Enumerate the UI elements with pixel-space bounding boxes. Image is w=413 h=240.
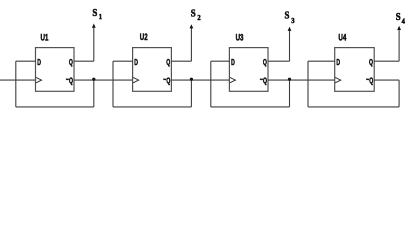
- U1 pin D label: [37, 59, 41, 67]
- U3 pin Q label: [263, 59, 267, 67]
- svg-text:~: ~: [260, 76, 263, 84]
- wire U4 Q horizontal: [374, 60, 399, 62]
- wire U2 loop bottom: [113, 106, 191, 108]
- node S4 label: [396, 11, 401, 23]
- svg-text:Q: Q: [369, 78, 373, 86]
- U4 pin D label: [336, 59, 340, 67]
- node S4 subscript: [402, 17, 406, 25]
- svg-text:S: S: [285, 10, 290, 22]
- wire U4 feedback left vertical: [307, 61, 309, 107]
- U1 label: [41, 32, 49, 43]
- arrowhead S3: [288, 27, 292, 31]
- wire U3 ~Q drop vertical: [289, 80, 291, 107]
- U3 pin ~Q label: tilde part: [260, 76, 263, 84]
- wire U1 ~Q to U2 clock: [74, 79, 133, 81]
- arrowhead S4: [397, 26, 401, 30]
- wire U4 ~Q drop vertical: [398, 80, 400, 107]
- junction dot U2 ~Q node: [190, 78, 193, 81]
- U2 pin Q label: [166, 59, 170, 67]
- svg-text:U4: U4: [338, 32, 346, 43]
- U1 pin Q label: [69, 59, 73, 67]
- U2 label: [140, 32, 148, 43]
- U3 pin D label: [231, 59, 235, 67]
- U4 pin ~Q label: Q part: [369, 78, 373, 86]
- arrowhead S1: [92, 24, 96, 28]
- wire U2 ~Q to U3 clock: [171, 79, 229, 81]
- wire U2 feedback to D: [113, 60, 133, 62]
- node S2 subscript: [197, 14, 201, 22]
- svg-text:Q: Q: [166, 59, 170, 67]
- wire U1 Q horizontal: [74, 60, 94, 62]
- wire U3 feedback left vertical: [210, 61, 212, 107]
- node S3 subscript: [291, 17, 295, 25]
- arrowhead S2: [190, 24, 194, 28]
- svg-text:D: D: [37, 59, 41, 67]
- wire U1 loop bottom: [16, 106, 94, 108]
- U2 pin D label: [134, 59, 138, 67]
- wire U1 ~Q drop vertical: [93, 80, 95, 107]
- wire U4 ~Q horizontal: [374, 79, 399, 81]
- svg-text:~: ~: [163, 76, 166, 84]
- wire U1 feedback left vertical: [15, 61, 17, 107]
- wire U3 Q horizontal: [268, 60, 290, 62]
- wire U4 feedback to D: [308, 60, 335, 62]
- wire U1 feedback to D: [16, 60, 36, 62]
- svg-text:Q: Q: [369, 59, 373, 67]
- svg-text:Q: Q: [69, 59, 73, 67]
- flip-flop U3 box: [229, 48, 268, 92]
- U2 pin ~Q label: tilde part: [163, 76, 166, 84]
- junction dot U1 ~Q node: [92, 78, 95, 81]
- flip-flop U2 box: [133, 48, 172, 92]
- wire U2 Q horizontal: [171, 60, 191, 62]
- svg-text:U2: U2: [140, 32, 148, 43]
- node S2 label: [191, 8, 196, 20]
- svg-text:D: D: [134, 59, 138, 67]
- U4 label: [338, 32, 346, 43]
- U4 clock triangle: [335, 77, 341, 82]
- svg-text:S: S: [191, 8, 196, 20]
- U2 clock triangle: [133, 77, 139, 82]
- U3 clock triangle: [230, 77, 236, 82]
- svg-text:D: D: [336, 59, 340, 67]
- svg-text:S: S: [92, 7, 97, 19]
- node S1 label: [92, 7, 97, 19]
- svg-text:4: 4: [402, 17, 406, 25]
- svg-text:Q: Q: [263, 78, 267, 86]
- U3 pin ~Q label: Q part: [263, 78, 267, 86]
- svg-text:Q: Q: [69, 78, 73, 86]
- wire S4 riser: [398, 29, 400, 61]
- svg-text:1: 1: [99, 13, 103, 21]
- wire U2 feedback left vertical: [112, 61, 114, 107]
- svg-text:U3: U3: [236, 32, 244, 43]
- wire U2 ~Q drop vertical: [190, 80, 192, 107]
- wire S1 riser: [93, 27, 95, 62]
- flip-flop U4 box: [335, 48, 375, 92]
- flip-flop U1 box: [36, 48, 75, 92]
- svg-text:S: S: [396, 11, 401, 23]
- svg-text:D: D: [231, 59, 235, 67]
- U4 pin Q label: [369, 59, 373, 67]
- U1 clock triangle: [36, 77, 42, 82]
- node S1 subscript: [99, 13, 103, 21]
- svg-text:2: 2: [197, 14, 201, 22]
- svg-text:~: ~: [366, 76, 369, 84]
- node S3 label: [285, 10, 290, 22]
- wire S2 riser: [190, 27, 192, 61]
- U1 pin ~Q label: tilde part: [66, 76, 69, 84]
- svg-text:Q: Q: [263, 59, 267, 67]
- svg-text:Q: Q: [166, 78, 170, 86]
- svg-text:~: ~: [66, 76, 69, 84]
- junction dot U3 ~Q node: [288, 78, 291, 81]
- svg-text:U1: U1: [41, 32, 49, 43]
- wire U4 loop bottom: [308, 106, 399, 108]
- U1 pin ~Q label: Q part: [69, 78, 73, 86]
- wire U3 feedback to D: [211, 60, 230, 62]
- wire S3 riser: [289, 30, 291, 61]
- U2 pin ~Q label: Q part: [166, 78, 170, 86]
- wire clock input to U1: [0, 79, 36, 81]
- wire U3 ~Q to U4 clock: [268, 79, 335, 81]
- U3 label: [236, 32, 244, 43]
- svg-text:3: 3: [291, 17, 295, 25]
- U4 pin ~Q label: tilde part: [366, 76, 369, 84]
- wire U3 loop bottom: [211, 106, 290, 108]
